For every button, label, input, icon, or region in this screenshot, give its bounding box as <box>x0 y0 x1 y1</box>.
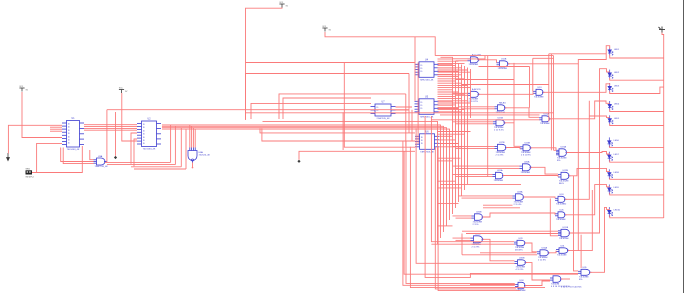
wire fanout low 6 <box>438 225 453 227</box>
wire fanout hatch 1 <box>438 60 459 62</box>
wire U22B out to LED8 <box>569 168 610 175</box>
wire bundle B1 line 4 <box>464 66 466 190</box>
wire U14 out to U16A <box>505 108 539 118</box>
NAND gate U8A (vertical, 4-input) <box>188 148 197 163</box>
wire bundle B1 line 5 <box>467 68 469 185</box>
power symbol VCC3 <box>19 88 24 92</box>
wire fanout low 5 <box>438 203 459 205</box>
svg-text:LED8: LED8 <box>614 172 620 174</box>
wire fanout hatch 17 <box>438 95 456 97</box>
wire LED4 to bus <box>610 109 664 111</box>
wire SW1 run right <box>37 146 83 173</box>
wire U6 out 2 <box>439 143 459 145</box>
wire bundle B1 line 6 <box>470 69 472 118</box>
svg-text:74LS09M: 74LS09M <box>494 180 504 182</box>
wire fanout hatch 11 <box>438 82 462 84</box>
wire to U21A in1 <box>453 173 493 175</box>
wire riser 4 <box>185 129 187 169</box>
wire x343 drop <box>342 112 344 150</box>
AND gate U28B <box>471 236 485 243</box>
wire U5 out 0 <box>439 100 453 102</box>
wire VCC1 to bus <box>246 8 283 121</box>
wire U11B out long to LED1 <box>508 46 610 64</box>
wire fanout hatch 14 <box>438 89 453 91</box>
wire U5 out 2 <box>439 108 459 110</box>
wire U6 out 3 <box>439 146 462 148</box>
svg-text:BU%: BU% <box>559 183 564 185</box>
wire fanout hatch 23 <box>438 109 465 111</box>
LED D10 <box>608 207 613 217</box>
svg-text:A BC/CD: A BC/CD <box>472 88 481 91</box>
svg-text:74LS163_4K: 74LS163_4K <box>143 149 156 151</box>
wire fanout hatch 7 <box>438 73 453 75</box>
wire fanout hatch 19 <box>438 100 468 102</box>
svg-text:74HC/163_4K: 74HC/163_4K <box>420 151 434 153</box>
LED D8 <box>608 169 613 179</box>
wire fanout hatch 3 <box>438 65 456 67</box>
register IC U5 74HC163 <box>415 99 439 115</box>
wire to U14 in2 <box>462 108 495 110</box>
svg-text:74LS20_4K: 74LS20_4K <box>199 155 211 157</box>
AND gate U15B <box>493 120 506 126</box>
AND gate U16A <box>539 116 551 122</box>
wire U21A out to U22B <box>503 176 558 177</box>
wire rail y147.2 <box>371 146 415 148</box>
svg-text:LED5: LED5 <box>614 118 620 120</box>
svg-text:2 11 9%: 2 11 9% <box>472 246 480 248</box>
wire U1 to U3A in2 <box>63 148 93 164</box>
wire fanout hatch 10 <box>438 80 456 82</box>
wire to U15B in2 <box>456 123 494 125</box>
wire fanout hatch 21 <box>438 104 453 106</box>
wire U6 out 0 <box>439 135 453 137</box>
wire feed x578.3 long <box>577 64 579 251</box>
svg-text:U27A: U27A <box>563 226 569 229</box>
wire U2 lower left hook 2 <box>134 139 137 166</box>
power port PLUS (top right) <box>659 27 666 33</box>
svg-text:A1 CLTB: A1 CLTB <box>472 54 481 57</box>
wire node A drop <box>115 112 117 156</box>
wire drop x425.1 <box>425 116 578 277</box>
svg-text:74LS08M: 74LS08M <box>556 219 566 221</box>
wire to U33A feed <box>574 176 579 271</box>
wire fanout hatch 12 <box>438 84 468 86</box>
wire feed x550.3b <box>580 235 582 268</box>
DIP switch SW1 <box>26 168 34 178</box>
wire rail y55.6 <box>435 55 553 57</box>
port arrow (left, pointing down) <box>7 153 10 161</box>
wire fanout low 3 <box>438 160 453 162</box>
wire U12A out to U13 <box>479 92 534 94</box>
svg-text:LED4: LED4 <box>614 104 620 106</box>
wire U2 bus line 1 <box>162 125 441 238</box>
wire fanout low 7 <box>438 187 462 189</box>
wire fanout hatch 15 <box>438 91 459 93</box>
wire U1-U2 bit3 <box>84 129 137 131</box>
wire fanout hatch 2 <box>438 62 465 64</box>
svg-text:LED7: LED7 <box>614 154 620 156</box>
wire U2 bus line 3 <box>162 128 447 226</box>
wire U18B out to U19 <box>531 148 557 151</box>
wire to U20A in1 <box>453 165 520 167</box>
OR gate U22B <box>558 172 571 179</box>
svg-text:U19A: U19A <box>561 146 567 149</box>
wire mid vert 2 <box>408 74 410 133</box>
LED D3 <box>608 83 613 93</box>
wire mid vert 4 <box>417 63 419 144</box>
wire U10A out to U11B <box>479 60 497 63</box>
wire U34 out to U33A <box>525 281 550 286</box>
wire x553.5 to U19 <box>554 149 557 151</box>
svg-text:74LS163_4K: 74LS163_4K <box>67 149 80 151</box>
svg-text:2 11%: 2 11% <box>473 224 479 226</box>
wire drop x402.9 <box>403 141 515 285</box>
wire U6 out 1 <box>439 139 456 141</box>
wire rail y141 <box>262 128 415 141</box>
wire to U16A in2 <box>431 119 539 121</box>
wire LED3 to bus (jog) <box>610 87 664 93</box>
svg-text:LED1: LED1 <box>614 49 620 51</box>
wire VCC2 branch to U4/U5 <box>414 37 416 101</box>
wire U35 out to LED10 <box>590 207 610 272</box>
wire drop x551.4 <box>550 54 552 151</box>
wire bundle B1 line 1 <box>455 62 457 209</box>
XOR gate U30A <box>537 250 550 256</box>
AND gate U10A <box>468 57 481 63</box>
wire to U17B in1 <box>453 145 495 147</box>
wire U1 to U3A in1 <box>61 148 94 162</box>
wire to U10A in2 <box>456 60 468 62</box>
wire LED5 to bus <box>610 124 664 126</box>
wire to U20A in2 <box>456 167 520 169</box>
svg-text:74LS20M: 74LS20M <box>559 238 569 240</box>
wire to U25B in2 <box>456 217 472 219</box>
AND gate U35 (bottom right) <box>578 269 592 275</box>
wire fanout hatch 16 <box>438 93 465 95</box>
wire U3A band3 <box>131 166 181 168</box>
svg-text:LED10: LED10 <box>614 210 621 212</box>
wire fanout hatch 5 <box>438 69 468 71</box>
wire long rail y114.9 <box>440 114 540 116</box>
wire drop x406 <box>406 141 515 283</box>
wire U24 out to LED5 <box>565 101 610 200</box>
wire U26 out to LED9 <box>565 185 610 215</box>
wire fanout hatch 6 <box>438 71 471 73</box>
wire drop x435.3 <box>435 147 516 289</box>
LED D6 <box>608 137 613 147</box>
wire U29 in2 <box>431 243 514 245</box>
wire seg y184.6 <box>440 184 521 186</box>
wire rail y73.5 <box>246 74 410 120</box>
wire drop x404.1 long <box>404 151 578 274</box>
wire drop x410.4 <box>410 147 545 288</box>
svg-text:NB-BU: NB-BU <box>499 103 506 105</box>
wire to U23A in1 <box>459 195 513 197</box>
wire U4 out 2 <box>439 71 459 73</box>
wire U1 pin stub a <box>50 126 62 128</box>
wire fanout low 2 <box>438 157 461 159</box>
wire fanout hatch 22 <box>438 106 459 108</box>
wire fanout hatch 13 <box>438 87 471 89</box>
wire seg y84.5 <box>462 84 549 86</box>
junction dot U8A output <box>192 167 194 169</box>
svg-text:2 11 8%: 2 11 8% <box>538 259 546 261</box>
svg-text:74LS04M: 74LS04M <box>557 255 567 257</box>
svg-text:74LS09M: 74LS09M <box>498 68 508 70</box>
svg-text:B%: B% <box>557 160 560 162</box>
register IC U6 74HC163 <box>415 134 439 150</box>
svg-text:U17B: U17B <box>499 142 505 144</box>
wire B1 top tie <box>441 57 453 60</box>
wire U33A out <box>561 278 570 280</box>
wire U29 out to U30A <box>525 243 537 252</box>
wire SW1 to U1 <box>32 143 62 172</box>
wire to U34 in <box>470 284 516 286</box>
wire U7 out b <box>396 109 410 111</box>
MUX gate U33A <box>550 276 563 283</box>
wire rail y53.8 to LED1 area <box>549 53 606 55</box>
wire U27 out to LED2 <box>570 69 610 233</box>
wire to U15B in1 <box>453 121 494 123</box>
wire fanout low 4 <box>438 180 456 182</box>
wire U8A in a <box>189 125 191 148</box>
AND gate U18B <box>520 145 532 151</box>
wire LED2 to bus <box>610 78 664 80</box>
LED D4 <box>608 101 613 111</box>
wire fanout hatch 18 <box>438 98 462 100</box>
wire drop x416.1 to U32B row <box>416 128 514 263</box>
wire rail y151.3 to diamond <box>299 151 415 160</box>
wire LED10 to bus <box>610 215 664 217</box>
wire to U27 in3 <box>550 199 558 236</box>
wire U5 out 3 <box>439 111 462 113</box>
LED D2 <box>608 70 613 80</box>
wire U5 out 1 <box>439 104 456 106</box>
wire seg y252.8 <box>480 252 537 254</box>
wire U20A out to U22B <box>531 167 559 174</box>
wire rail y93.9 <box>279 94 406 119</box>
wire U28B out to U32B <box>483 239 515 260</box>
wire drop x487.7 <box>487 56 489 177</box>
wire U30A out to U31 <box>549 251 557 253</box>
svg-text:2 11 4%: 2 11 4% <box>514 204 522 206</box>
wire fanout hatch 8 <box>438 76 459 78</box>
wire fanout hatch 0 <box>438 58 453 60</box>
wire to U12A in1 <box>453 92 468 94</box>
sheet border right edge <box>683 0 685 293</box>
LED D1 <box>608 47 613 57</box>
wire U1-U2 bit2 <box>84 127 137 129</box>
wire seg y66.5 <box>479 66 530 68</box>
wire rail y103.4 <box>251 103 371 119</box>
svg-text:74LS08B2: 74LS08B2 <box>556 204 567 206</box>
wire U19 out to LED7 <box>567 152 610 155</box>
wire to U14 in1 <box>459 106 495 108</box>
junction diamond node B <box>297 160 300 163</box>
OR gate U31 <box>556 248 570 254</box>
wire rail y55.6 stub <box>468 56 486 59</box>
wire long rail y112.8 <box>245 112 553 114</box>
wire U32B out to U33A <box>526 263 551 280</box>
wire LED8 to bus <box>610 178 664 180</box>
wire node C drop <box>106 110 108 163</box>
svg-text:LED6: LED6 <box>614 140 620 142</box>
wire U4 out 1 <box>439 67 456 69</box>
counter IC U1 74LS163 <box>62 121 84 148</box>
wire U15B out to U18B <box>505 123 521 147</box>
register IC U4 74HC163 <box>415 62 439 78</box>
wire + bus vertical <box>662 33 664 219</box>
wire to U3A in3 <box>90 150 94 160</box>
wire LED6 to bus <box>610 146 664 148</box>
power symbol VCC1 <box>279 4 284 8</box>
wire U31 out riser <box>568 190 592 251</box>
wire to U17B in2 <box>456 148 495 150</box>
wire U1 pin stub b <box>50 128 62 130</box>
svg-text:74LS08M: 74LS08M <box>534 97 544 99</box>
svg-text:74HC/163_4K: 74HC/163_4K <box>420 79 434 81</box>
svg-text:U3A: U3A <box>98 155 103 158</box>
wire net A1 to U4 <box>246 62 415 64</box>
wire VCC2 rail <box>325 32 435 56</box>
AND gate U29 <box>514 240 527 246</box>
wire U3A band4 <box>134 168 186 170</box>
wire U2 bus line 4 <box>162 129 450 220</box>
wire fanout low 0 <box>438 131 471 133</box>
svg-text:4B 08%: 4B 08% <box>515 249 523 251</box>
svg-text:74LS08M: 74LS08M <box>540 123 550 125</box>
wire drop x529.5 <box>529 67 531 108</box>
wire U4 out 3 <box>439 74 462 76</box>
svg-text:B%: B% <box>579 279 582 281</box>
wire mid vert 3 <box>411 110 413 141</box>
svg-text:U23A: U23A <box>517 191 523 194</box>
wire fanout low 1 <box>438 133 465 135</box>
svg-text:4 11 8 7 10 8 2(U7)%: 4 11 8 7 10 8 2(U7)% <box>561 286 582 288</box>
LED D7 <box>608 152 613 162</box>
OR gate U27 (4-input) <box>558 229 571 237</box>
wire U3A band2 <box>107 164 175 166</box>
svg-text:4 11 9%: 4 11 9% <box>516 269 524 271</box>
wire rail y132.9 <box>260 128 415 133</box>
svg-text:74LS08M: 74LS08M <box>521 172 531 174</box>
wire rail y98 <box>283 98 371 119</box>
wire U2 bus line 0 <box>263 121 438 244</box>
power symbol VCC2 <box>322 28 327 32</box>
wire riser 1 <box>170 125 172 162</box>
wire drop x438.1 <box>438 147 520 291</box>
wire U23A out to U24 <box>524 197 556 198</box>
svg-text:74HCT08_4K: 74HCT08_4K <box>95 166 109 168</box>
wire LED9 to bus <box>610 193 664 195</box>
AND gate U26 <box>555 212 567 218</box>
svg-text:74LS08M: 74LS08M <box>469 64 479 66</box>
wire riser 3 <box>180 128 182 167</box>
wire U8A in c <box>192 128 194 148</box>
wire to U25B in1 <box>453 215 472 217</box>
wire seg y79.5 <box>456 79 515 81</box>
wire seg y205 <box>483 204 513 206</box>
wire drop x514 <box>513 63 515 123</box>
LED D5 <box>608 115 613 125</box>
wire mid vert 1 <box>405 94 407 146</box>
AND gate U23A <box>513 194 526 201</box>
wire U2 lower left hook <box>131 133 137 164</box>
svg-text:U25B: U25B <box>476 212 482 214</box>
wire U17B out to U18B <box>506 148 520 150</box>
svg-text:2 3 11 8%: 2 3 11 8% <box>521 154 531 156</box>
wire VCC3 to U1 <box>22 92 62 138</box>
OR gate U19 (4-input) <box>556 149 568 157</box>
svg-text:U18B: U18B <box>525 143 531 145</box>
wire fanout hatch 4 <box>438 67 462 69</box>
wire VCC4 down to U2 <box>122 93 137 141</box>
svg-text:U20A: U20A <box>524 161 530 164</box>
wire U1 pin stub c <box>50 130 62 132</box>
wire to U30A in2 <box>462 254 537 256</box>
wire U4 out 0 <box>439 63 453 65</box>
wire U1-U2 bit0 <box>84 124 137 126</box>
wire to U27 in2 <box>466 233 558 235</box>
wire to U12A in2 <box>456 94 468 96</box>
LED D9 <box>608 185 613 195</box>
wire riser 2 <box>174 126 176 164</box>
wire to U27 in1 <box>462 230 558 232</box>
wire U7 out c <box>396 112 406 114</box>
AND gate U32B <box>515 260 528 266</box>
wire U16A out to LED4 <box>550 101 610 119</box>
svg-text:U15B: U15B <box>498 118 504 120</box>
wire to U28B in2 <box>456 239 471 241</box>
counter IC U2 74LS163 <box>137 121 161 147</box>
wire fanout hatch 9 <box>438 78 465 80</box>
wire U1-U2 bit1 <box>84 126 137 128</box>
svg-text:2 11 9 4%: 2 11 9 4% <box>494 129 504 131</box>
wire U8A output stub <box>192 163 194 168</box>
svg-text:LED2: LED2 <box>614 72 620 74</box>
wire long rail y109.7 <box>107 109 409 111</box>
AND gate U17B <box>495 144 508 151</box>
AND gate U20A <box>520 164 533 171</box>
wire drop x344.3 <box>344 63 371 148</box>
power symbol VCC4 <box>119 90 124 94</box>
wire drop x548.8 <box>548 54 550 122</box>
junction diamond node A <box>114 156 117 159</box>
wire drop x431.4 <box>431 116 514 242</box>
NAND gate U3A <box>94 158 107 165</box>
wire port arrow to U1 pin <box>8 125 62 153</box>
svg-text:SW DIP-4: SW DIP-4 <box>26 177 34 179</box>
svg-text:U22B: U22B <box>563 170 569 172</box>
wire U25B out to U26 <box>483 213 556 217</box>
AND gate U13 <box>533 89 545 95</box>
wire bundle B1 line 0 <box>452 60 454 214</box>
svg-text:74HC245_4K: 74HC245_4K <box>376 118 390 120</box>
wire LED7 to bus <box>610 160 664 162</box>
wire to U28B in1 <box>453 237 471 239</box>
wire U13 out to LED3 <box>543 84 610 93</box>
svg-text:U32B: U32B <box>519 258 525 260</box>
wire rail y58.3 <box>533 57 554 59</box>
svg-text:LED3: LED3 <box>614 86 620 88</box>
wire to U21A in2 <box>456 176 493 178</box>
AND gate U12A <box>468 91 481 97</box>
svg-text:2 11 8%: 2 11 8% <box>496 154 504 156</box>
wire U8A in b <box>191 126 193 147</box>
svg-text:U30A: U30A <box>542 247 548 250</box>
wire fanout hatch 20 <box>438 102 471 104</box>
svg-text:U11B: U11B <box>501 59 507 61</box>
